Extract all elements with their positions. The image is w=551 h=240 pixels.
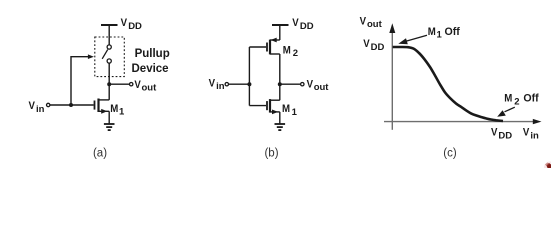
node Vout (a) junction dot — [107, 82, 111, 86]
svg-text:V: V — [307, 78, 313, 91]
svg-text:1: 1 — [437, 30, 443, 41]
Vin label (a) — [29, 99, 45, 114]
Vin terminal circle (b) — [225, 83, 228, 86]
svg-text:V: V — [360, 15, 366, 28]
svg-text:Device: Device — [132, 63, 169, 75]
svg-text:2: 2 — [514, 96, 519, 107]
VDD level label (c) — [363, 37, 384, 53]
transistor M1 (b) gate bar — [266, 101, 268, 110]
M1 (b) source down wire — [279, 112, 281, 124]
VDD label (b) — [292, 16, 313, 32]
M2 Off pointer line — [505, 107, 515, 112]
M1 label (a) — [110, 102, 125, 117]
svg-text:1: 1 — [292, 107, 298, 118]
control arrowhead into pullup box — [88, 54, 94, 59]
Vout terminal circle (b) — [301, 83, 304, 86]
wire to Vout terminal (b) — [280, 83, 301, 85]
transistor M1 (a) source lead — [99, 110, 110, 112]
svg-text:M: M — [282, 102, 290, 115]
transistor M2 source lead — [270, 39, 280, 41]
M1 (a) source arrow — [101, 109, 107, 114]
M2 drain lead — [270, 53, 280, 55]
M2 gate wire — [249, 46, 266, 48]
svg-text:(b): (b) — [264, 147, 278, 159]
M1 (a) source down wire — [108, 111, 110, 123]
Vin wire to gate bus (b) — [229, 83, 250, 85]
svg-text:in: in — [530, 130, 539, 141]
gate bus (b) — [248, 47, 250, 106]
M1 (b) source lead — [270, 111, 280, 113]
svg-text:V: V — [29, 99, 35, 112]
Vout terminal circle (a) — [130, 83, 133, 86]
transfer curve — [393, 47, 503, 121]
VDD supply bar (b) — [272, 24, 289, 26]
x axis — [384, 121, 534, 123]
M1 Off label — [428, 25, 460, 40]
M2 Off label — [504, 92, 539, 108]
junction dot output rail (b) — [278, 82, 282, 86]
M1 Off pointer line — [405, 35, 427, 41]
svg-text:M: M — [428, 25, 436, 38]
transistor M2 gate bar — [266, 43, 268, 52]
svg-text:Pullup: Pullup — [135, 48, 170, 60]
y axis arrowhead — [389, 23, 395, 33]
svg-text:DD: DD — [128, 21, 142, 32]
transistor M1 (a) drain lead — [99, 99, 110, 101]
Vin label (b) — [209, 77, 225, 92]
svg-text:V: V — [292, 16, 298, 29]
M2 source arrow (points to channel) — [271, 38, 277, 43]
ground (b) — [275, 123, 286, 125]
wire VDD to M2 source (b) — [279, 25, 281, 40]
svg-text:DD: DD — [300, 21, 314, 32]
svg-text:1: 1 — [119, 107, 125, 118]
wire Vin to gate of M1 (a) — [50, 104, 94, 106]
svg-text:2: 2 — [293, 48, 298, 59]
svg-text:out: out — [142, 83, 158, 94]
VDD label (a) — [121, 16, 142, 32]
y axis — [391, 30, 393, 130]
svg-text:V: V — [209, 77, 215, 90]
VDD supply bar (a) — [101, 24, 118, 26]
transistor M1 (b) channel bar — [269, 99, 271, 113]
wire VDD to switch — [108, 25, 110, 45]
svg-text:M: M — [110, 102, 118, 115]
svg-text:V: V — [523, 126, 529, 139]
junction dot on Vin wire (a) — [69, 103, 73, 107]
svg-text:DD: DD — [498, 131, 512, 142]
Vin axis label (c) — [523, 126, 539, 141]
Vin terminal circle (a) — [47, 103, 50, 106]
svg-text:Off: Off — [445, 26, 461, 38]
svg-text:(a): (a) — [93, 147, 107, 159]
svg-text:out: out — [314, 82, 330, 93]
output rail M2 drain to M1 drain (b) — [279, 54, 281, 100]
transistor M1 (a) channel bar — [97, 99, 99, 113]
pullup switch top contact — [107, 45, 111, 49]
VDD tick label on x axis — [491, 126, 512, 142]
M1 (b) source arrow — [272, 110, 278, 115]
svg-text:V: V — [363, 37, 369, 50]
M1 Off arrowhead — [398, 38, 408, 44]
svg-text:in: in — [216, 81, 225, 92]
red corner mark — [544, 162, 551, 174]
M1 (b) drain lead — [270, 99, 280, 101]
svg-text:M: M — [504, 92, 512, 105]
M2 label — [283, 44, 298, 59]
x axis arrowhead — [533, 119, 542, 124]
svg-text:(c): (c) — [443, 147, 457, 159]
svg-text:out: out — [367, 19, 383, 30]
wire to Vout terminal (a) — [109, 83, 129, 85]
svg-text:M: M — [283, 44, 291, 57]
pullup switch blade — [102, 50, 108, 59]
Vout label (b) — [307, 78, 330, 93]
Vout label (a) — [134, 78, 157, 93]
M1 (b) gate wire — [249, 105, 266, 107]
svg-text:Off: Off — [523, 93, 539, 105]
svg-text:DD: DD — [371, 42, 385, 53]
ground (a) — [104, 123, 115, 125]
junction dot gate bus (b) — [247, 82, 251, 86]
svg-text:V: V — [134, 78, 140, 91]
Vout axis label (c) — [360, 15, 383, 30]
wire junction up to switch control — [71, 57, 89, 105]
svg-text:V: V — [121, 16, 127, 29]
svg-text:V: V — [491, 126, 497, 139]
pullup device dashed box — [95, 37, 125, 77]
transistor M1 (a) gate bar — [94, 101, 96, 110]
svg-text:in: in — [36, 104, 45, 115]
pullup switch bottom contact — [107, 59, 111, 63]
M2 Off arrowhead — [497, 110, 506, 117]
wire switch to output node — [108, 63, 110, 100]
transistor M2 channel bar — [269, 40, 271, 55]
M1 label (b) — [282, 102, 298, 117]
